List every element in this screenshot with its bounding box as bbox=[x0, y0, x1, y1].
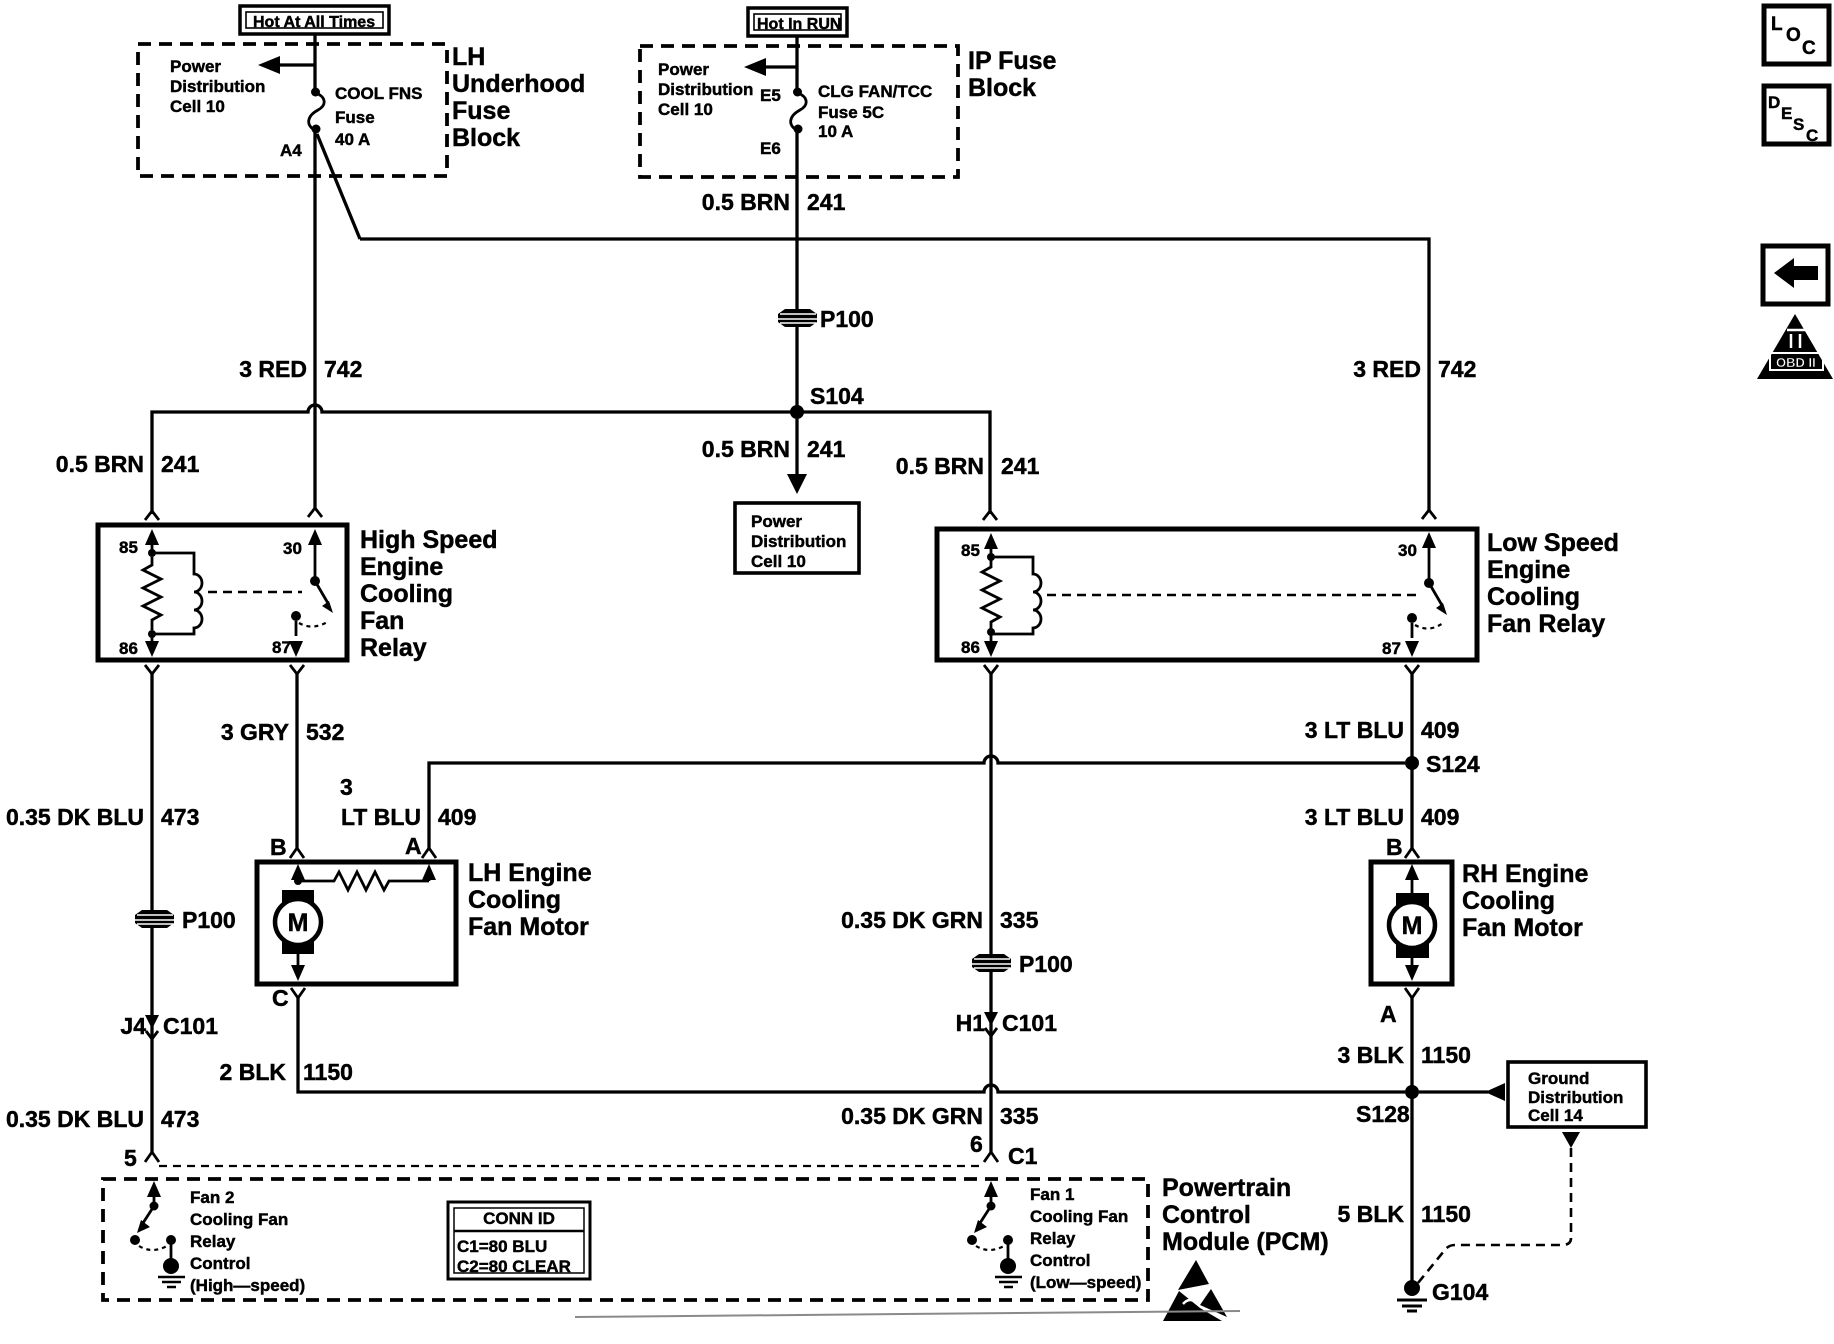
arrow to Power Distribution (middle) bbox=[744, 58, 797, 76]
svg-text:RH Engine: RH Engine bbox=[1462, 860, 1588, 888]
relay K1 coil-switch dashed link bbox=[208, 591, 302, 594]
svg-text:Cooling: Cooling bbox=[468, 886, 561, 914]
svg-text:40 A: 40 A bbox=[335, 130, 370, 149]
svg-text:L: L bbox=[1771, 14, 1783, 35]
svg-text:241: 241 bbox=[807, 436, 846, 462]
svg-text:Low Speed: Low Speed bbox=[1487, 529, 1619, 557]
connector Y at RH motor A bbox=[1405, 988, 1419, 998]
relay K1 pin 86 dot and arrow bbox=[145, 630, 159, 657]
svg-text:C1: C1 bbox=[1008, 1143, 1038, 1169]
wire LS 87 down to RH motor B bbox=[1410, 672, 1413, 848]
connector Y into HS relay 30 bbox=[308, 508, 322, 517]
svg-text:5: 5 bbox=[124, 1145, 137, 1171]
relay K2 pin 30 arrow and switch bbox=[1422, 532, 1447, 615]
wire label 3 RED 742 (left) bbox=[239, 356, 362, 382]
svg-text:LH Engine: LH Engine bbox=[468, 859, 592, 887]
svg-text:Engine: Engine bbox=[360, 553, 443, 581]
svg-text:Block: Block bbox=[968, 74, 1036, 102]
svg-text:S128: S128 bbox=[1356, 1101, 1410, 1127]
fuse COOL FNS 40 A bbox=[309, 88, 324, 134]
wire LS 86 down to PCM pin 6 bbox=[989, 672, 992, 1152]
svg-text:(High—speed): (High—speed) bbox=[190, 1276, 305, 1295]
svg-text:C2=80 CLEAR: C2=80 CLEAR bbox=[457, 1257, 571, 1276]
svg-text:Cell 10: Cell 10 bbox=[658, 100, 713, 119]
svg-text:409: 409 bbox=[1421, 717, 1459, 743]
node label Fan 2 Cooling Fan Relay Control bbox=[190, 1188, 305, 1295]
svg-text:85: 85 bbox=[119, 538, 138, 557]
motor M1 symbol bbox=[275, 890, 321, 981]
node Power Distribution Cell 10 reference box bbox=[735, 503, 859, 573]
svg-text:C101: C101 bbox=[163, 1013, 218, 1039]
connector P100 (left) bbox=[135, 907, 236, 933]
svg-text:C: C bbox=[1806, 126, 1818, 145]
connector Y at LH motor A bbox=[422, 848, 436, 858]
relay K1 coil winding loop bbox=[152, 553, 202, 634]
wire label 3 LT BLU 409 (above S124) bbox=[1305, 717, 1460, 743]
svg-text:Power: Power bbox=[170, 57, 221, 76]
relay K2 pin 86 dot and arrow bbox=[984, 628, 998, 657]
svg-text:0.35 DK GRN: 0.35 DK GRN bbox=[841, 1103, 983, 1129]
svg-text:Fan Motor: Fan Motor bbox=[468, 913, 589, 941]
wire label 0.35 DK BLU 473 (upper) bbox=[6, 804, 199, 830]
wire label 0.35 DK GRN 335 (lower) bbox=[841, 1103, 1038, 1129]
svg-text:High Speed: High Speed bbox=[360, 526, 498, 554]
icon LOC bbox=[1764, 6, 1829, 64]
connector Y into LS relay 85 bbox=[983, 511, 997, 520]
svg-text:409: 409 bbox=[438, 804, 476, 830]
connector Y at LH motor C bbox=[291, 988, 305, 998]
wire fuse E6 down to P100 bbox=[795, 131, 798, 309]
svg-text:Fan Motor: Fan Motor bbox=[1462, 914, 1583, 942]
connector Y below LS relay 86 bbox=[984, 665, 998, 674]
svg-text:IP Fuse: IP Fuse bbox=[968, 47, 1057, 75]
node label High Speed Engine Cooling Fan Relay bbox=[360, 526, 498, 662]
svg-text:30: 30 bbox=[1398, 541, 1417, 560]
svg-text:Fuse 5C: Fuse 5C bbox=[818, 103, 884, 122]
svg-text:87: 87 bbox=[272, 638, 291, 657]
svg-text:Distribution: Distribution bbox=[658, 80, 753, 99]
svg-text:H1: H1 bbox=[956, 1010, 986, 1036]
wire label 3 LT BLU 409 (below S124) bbox=[1305, 804, 1460, 830]
motor M1 internal resistor bbox=[298, 872, 429, 890]
svg-text:C: C bbox=[272, 985, 289, 1011]
svg-text:3 RED: 3 RED bbox=[1353, 356, 1421, 382]
svg-text:Module (PCM): Module (PCM) bbox=[1162, 1228, 1329, 1256]
svg-text:P100: P100 bbox=[1019, 951, 1073, 977]
svg-text:Distribution: Distribution bbox=[170, 77, 265, 96]
svg-text:C101: C101 bbox=[1002, 1010, 1057, 1036]
node label Low Speed Engine Cooling Fan Relay bbox=[1487, 529, 1619, 638]
svg-text:86: 86 bbox=[961, 638, 980, 657]
svg-text:0.35 DK BLU: 0.35 DK BLU bbox=[6, 804, 144, 830]
relay K2 pin 85 arrow bbox=[984, 533, 998, 561]
svg-text:Cell 10: Cell 10 bbox=[751, 552, 806, 571]
svg-text:Control: Control bbox=[1162, 1201, 1251, 1229]
svg-text:CLG FAN/TCC: CLG FAN/TCC bbox=[818, 82, 932, 101]
CONN ID table bbox=[448, 1202, 590, 1279]
svg-text:Relay: Relay bbox=[360, 634, 427, 662]
wire label 5 BLK 1150 bbox=[1338, 1201, 1471, 1227]
wire label 0.5 BRN 241 (below S104) bbox=[702, 436, 846, 462]
svg-text:Cooling Fan: Cooling Fan bbox=[190, 1210, 288, 1229]
svg-text:1150: 1150 bbox=[1421, 1042, 1471, 1068]
svg-text:241: 241 bbox=[161, 451, 200, 477]
svg-text:10 A: 10 A bbox=[818, 122, 853, 141]
node label RH Engine Cooling Fan Motor bbox=[1462, 860, 1588, 942]
icon OBD II triangle bbox=[1757, 314, 1833, 379]
connector P100 (middle) bbox=[778, 306, 874, 332]
wire label 0.35 DK BLU 473 (lower) bbox=[6, 1106, 199, 1132]
motor M2 RH Engine Cooling Fan Motor bbox=[1371, 862, 1452, 984]
svg-text:3 LT BLU: 3 LT BLU bbox=[1305, 717, 1404, 743]
svg-text:Fan 2: Fan 2 bbox=[190, 1188, 234, 1207]
svg-text:D: D bbox=[1768, 93, 1780, 112]
svg-text:Power: Power bbox=[658, 60, 709, 79]
wire diagonal from fuse A4 to top feed bbox=[317, 134, 360, 239]
svg-text:0.5 BRN: 0.5 BRN bbox=[896, 453, 984, 479]
ground symbol (Fan 2 driver) bbox=[158, 1258, 185, 1287]
arrow from S104 to Power Distribution Cell 10 bbox=[787, 419, 807, 494]
arrow to Power Distribution (left) bbox=[258, 56, 315, 74]
splice S128 bbox=[1356, 1085, 1419, 1127]
svg-text:Fan 1: Fan 1 bbox=[1030, 1185, 1074, 1204]
svg-text:Relay: Relay bbox=[1030, 1229, 1076, 1248]
svg-text:C: C bbox=[1802, 38, 1816, 59]
svg-text:1150: 1150 bbox=[1421, 1201, 1471, 1227]
connector Y at PCM pin 5 bbox=[145, 1152, 159, 1162]
node label Fan 1 Cooling Fan Relay Control bbox=[1030, 1185, 1141, 1292]
splice S124 bbox=[1405, 751, 1480, 777]
wire from Hot At All Times into LH fuse block bbox=[313, 34, 316, 90]
svg-text:3 BLK: 3 BLK bbox=[1338, 1042, 1405, 1068]
svg-text:B: B bbox=[270, 834, 287, 860]
wire from Hot In RUN into IP fuse block bbox=[795, 36, 798, 90]
connector H1 C101 bbox=[956, 1010, 1058, 1036]
svg-text:A: A bbox=[1380, 1001, 1397, 1027]
relay K2 coil-switch dashed link bbox=[1047, 594, 1416, 597]
node label Hot In RUN bbox=[748, 8, 847, 36]
svg-text:Hot In RUN: Hot In RUN bbox=[757, 16, 841, 33]
motor M2 pin B arrow bbox=[1405, 864, 1419, 896]
node label Powertrain Control Module (PCM) bbox=[1162, 1174, 1329, 1256]
arrow from S128 to Ground Distribution bbox=[1419, 1083, 1505, 1101]
svg-text:S124: S124 bbox=[1426, 751, 1480, 777]
node label LH Engine Cooling Fan Motor bbox=[468, 859, 592, 941]
svg-text:3: 3 bbox=[340, 774, 353, 800]
connector Y below HS relay 86 bbox=[145, 665, 159, 674]
dashed path Ground Distribution to G104 bbox=[1418, 1132, 1580, 1283]
svg-text:E6: E6 bbox=[760, 139, 781, 158]
svg-text:(Low—speed): (Low—speed) bbox=[1030, 1273, 1141, 1292]
svg-text:1150: 1150 bbox=[303, 1059, 353, 1085]
wire P100 to S104 bbox=[795, 327, 798, 412]
svg-text:532: 532 bbox=[306, 719, 344, 745]
svg-text:G104: G104 bbox=[1432, 1279, 1488, 1305]
connector P100 (middle-low) bbox=[972, 951, 1073, 977]
svg-text:241: 241 bbox=[1001, 453, 1040, 479]
connector Y below HS relay 87 bbox=[290, 665, 304, 674]
connector Y into HS relay 85 bbox=[145, 511, 159, 520]
motor M1 LH Engine Cooling Fan Motor bbox=[257, 862, 456, 984]
svg-text:Ground: Ground bbox=[1528, 1069, 1589, 1088]
wire label 3 BLK 1150 bbox=[1338, 1042, 1471, 1068]
svg-text:86: 86 bbox=[119, 639, 138, 658]
svg-text:Powertrain: Powertrain bbox=[1162, 1174, 1291, 1202]
svg-text:473: 473 bbox=[161, 804, 199, 830]
connector Y at LH motor B bbox=[290, 848, 304, 858]
svg-text:85: 85 bbox=[961, 541, 980, 560]
svg-text:Distribution: Distribution bbox=[751, 532, 846, 551]
svg-text:M: M bbox=[1402, 912, 1423, 940]
svg-text:E: E bbox=[1781, 104, 1792, 123]
motor M1 pin A arrow bbox=[422, 864, 436, 881]
relay K1 pin 87 contact bbox=[289, 611, 329, 657]
relay K2 Low Speed Engine Cooling Fan Relay bbox=[937, 529, 1477, 660]
svg-text:0.35 DK BLU: 0.35 DK BLU bbox=[6, 1106, 144, 1132]
relay K2 coil resistor bbox=[982, 557, 1000, 632]
PCM dashed box bbox=[103, 1179, 1148, 1300]
svg-text:3 GRY: 3 GRY bbox=[221, 719, 289, 745]
node label IP Fuse Block bbox=[968, 47, 1057, 102]
wire label 0.35 DK GRN 335 (upper) bbox=[841, 907, 1038, 933]
svg-text:E5: E5 bbox=[760, 86, 781, 105]
svg-text:A4: A4 bbox=[280, 141, 302, 160]
svg-text:Fan Relay: Fan Relay bbox=[1487, 610, 1605, 638]
svg-text:Fuse: Fuse bbox=[335, 108, 375, 127]
wire from fuse A4 down to relay 30 bbox=[313, 131, 316, 509]
connector J4 C101 bbox=[120, 1013, 218, 1039]
svg-text:CONN ID: CONN ID bbox=[483, 1209, 555, 1228]
svg-text:Control: Control bbox=[190, 1254, 250, 1273]
wire HS 86 down to PCM pin 5 bbox=[150, 672, 153, 1152]
wire label 3 GRY 532 bbox=[221, 719, 345, 745]
svg-text:LT BLU: LT BLU bbox=[341, 804, 421, 830]
wire LH motor C down and right to S128 (2 BLK 1150) bbox=[298, 996, 1405, 1092]
svg-text:Cooling: Cooling bbox=[1487, 583, 1580, 611]
splice S104 bbox=[790, 383, 864, 419]
svg-text:30: 30 bbox=[283, 539, 302, 558]
wire top feed to right side bbox=[360, 239, 1429, 510]
relay K2 pin 87 contact bbox=[1405, 613, 1443, 657]
relay K1 pin 30 arrow and switch bbox=[308, 529, 333, 613]
connector Y at RH motor B bbox=[1405, 848, 1419, 858]
relay K2 coil winding loop bbox=[991, 557, 1041, 634]
PCM Fan 1 driver switch bbox=[967, 1181, 1013, 1260]
svg-text:S: S bbox=[1793, 115, 1804, 134]
svg-text:2 BLK: 2 BLK bbox=[220, 1059, 287, 1085]
motor M2 symbol bbox=[1389, 893, 1435, 981]
svg-text:Distribution: Distribution bbox=[1528, 1088, 1623, 1107]
svg-text:O: O bbox=[1786, 25, 1801, 46]
svg-text:409: 409 bbox=[1421, 804, 1459, 830]
svg-text:473: 473 bbox=[161, 1106, 199, 1132]
wire label 0.5 BRN 241 (top middle) bbox=[702, 189, 846, 215]
svg-text:0.5 BRN: 0.5 BRN bbox=[702, 436, 790, 462]
svg-text:M: M bbox=[288, 909, 309, 937]
dashed connector line C1 across PCM top bbox=[159, 1165, 983, 1167]
fuse value label CLG FAN/TCC Fuse 5C 10 A bbox=[818, 82, 932, 141]
svg-text:87: 87 bbox=[1382, 639, 1401, 658]
svg-text:Cooling: Cooling bbox=[1462, 887, 1555, 915]
wire label 0.5 BRN 241 (left branch) bbox=[56, 451, 200, 477]
wire LH motor A up and right to S124 bbox=[429, 756, 1405, 848]
svg-text:Relay: Relay bbox=[190, 1232, 236, 1251]
node label Power Distribution Cell 10 (left) bbox=[170, 57, 265, 116]
svg-text:S104: S104 bbox=[810, 383, 864, 409]
svg-text:3 RED: 3 RED bbox=[239, 356, 307, 382]
svg-text:241: 241 bbox=[807, 189, 846, 215]
svg-text:COOL FNS: COOL FNS bbox=[335, 84, 423, 103]
svg-text:P100: P100 bbox=[182, 907, 236, 933]
svg-text:Fuse: Fuse bbox=[452, 97, 510, 125]
svg-text:0.35 DK GRN: 0.35 DK GRN bbox=[841, 907, 983, 933]
node Ground Distribution Cell 14 reference box bbox=[1508, 1062, 1646, 1127]
ESD sensitivity symbol bbox=[1163, 1260, 1227, 1321]
svg-text:0.5 BRN: 0.5 BRN bbox=[702, 189, 790, 215]
connector Y below LS relay 87 bbox=[1405, 665, 1419, 674]
wire RH motor A down to S128 and G104 bbox=[1410, 996, 1413, 1281]
ground symbol (Fan 1 driver) bbox=[995, 1258, 1022, 1287]
relay K1 High Speed Engine Cooling Fan Relay bbox=[98, 525, 347, 660]
connector Y into LS relay 30 bbox=[1422, 510, 1436, 519]
node label LH Underhood Fuse Block bbox=[452, 43, 585, 152]
node label Power Distribution Cell 10 (middle) bbox=[658, 60, 753, 119]
svg-text:Cooling: Cooling bbox=[360, 580, 453, 608]
svg-text:B: B bbox=[1386, 834, 1403, 860]
node label Hot At All Times bbox=[240, 6, 389, 34]
svg-text:Block: Block bbox=[452, 124, 520, 152]
wire label 0.5 BRN 241 (right branch) bbox=[896, 453, 1040, 479]
svg-text:A: A bbox=[405, 833, 422, 859]
svg-text:Hot At All Times: Hot At All Times bbox=[253, 14, 375, 31]
svg-text:Underhood: Underhood bbox=[452, 70, 585, 98]
motor M1 pin B arrow and dot bbox=[291, 864, 305, 885]
svg-text:Power: Power bbox=[751, 512, 802, 531]
svg-text:OBD II: OBD II bbox=[1776, 355, 1816, 370]
connector Y at PCM pin 6 bbox=[984, 1152, 998, 1162]
svg-text:J4: J4 bbox=[120, 1013, 146, 1039]
ground G104 bbox=[1397, 1279, 1488, 1311]
svg-text:Control: Control bbox=[1030, 1251, 1090, 1270]
LH Underhood Fuse Block dashed box bbox=[138, 44, 447, 176]
svg-text:Fan: Fan bbox=[360, 607, 404, 635]
icon back arrow bbox=[1763, 246, 1828, 304]
svg-text:LH: LH bbox=[452, 43, 485, 71]
relay K1 pin 85 arrow bbox=[145, 529, 159, 557]
svg-text:P100: P100 bbox=[820, 306, 874, 332]
icon DESC bbox=[1764, 86, 1829, 145]
svg-text:335: 335 bbox=[1000, 907, 1039, 933]
wire horizontal bus 0.5 BRN at y412 bbox=[152, 405, 990, 514]
svg-text:335: 335 bbox=[1000, 1103, 1039, 1129]
svg-text:Engine: Engine bbox=[1487, 556, 1570, 584]
fuse value label COOL FNS Fuse 40 A bbox=[335, 84, 423, 149]
svg-text:0.5 BRN: 0.5 BRN bbox=[56, 451, 144, 477]
PCM Fan 2 driver switch bbox=[130, 1181, 176, 1260]
fuse CLG FAN/TCC 5C 10 A bbox=[791, 88, 806, 134]
svg-text:C1=80 BLU: C1=80 BLU bbox=[457, 1237, 547, 1256]
wire HS 87 down to LH motor B bbox=[295, 672, 298, 848]
svg-text:Cell 14: Cell 14 bbox=[1528, 1106, 1583, 1125]
relay K1 coil resistor bbox=[143, 557, 161, 630]
IP Fuse Block dashed box bbox=[640, 46, 958, 177]
wire label 3 RED 742 (right) bbox=[1353, 356, 1476, 382]
svg-text:6: 6 bbox=[970, 1131, 983, 1157]
svg-text:Cell 10: Cell 10 bbox=[170, 97, 225, 116]
svg-text:742: 742 bbox=[1438, 356, 1476, 382]
wire label 3 LT BLU 409 (at LH motor A) bbox=[340, 774, 476, 830]
wire label 2 BLK 1150 bbox=[220, 1059, 353, 1085]
svg-text:5 BLK: 5 BLK bbox=[1338, 1201, 1405, 1227]
svg-text:742: 742 bbox=[324, 356, 362, 382]
svg-text:Cooling Fan: Cooling Fan bbox=[1030, 1207, 1128, 1226]
svg-text:3 LT BLU: 3 LT BLU bbox=[1305, 804, 1404, 830]
